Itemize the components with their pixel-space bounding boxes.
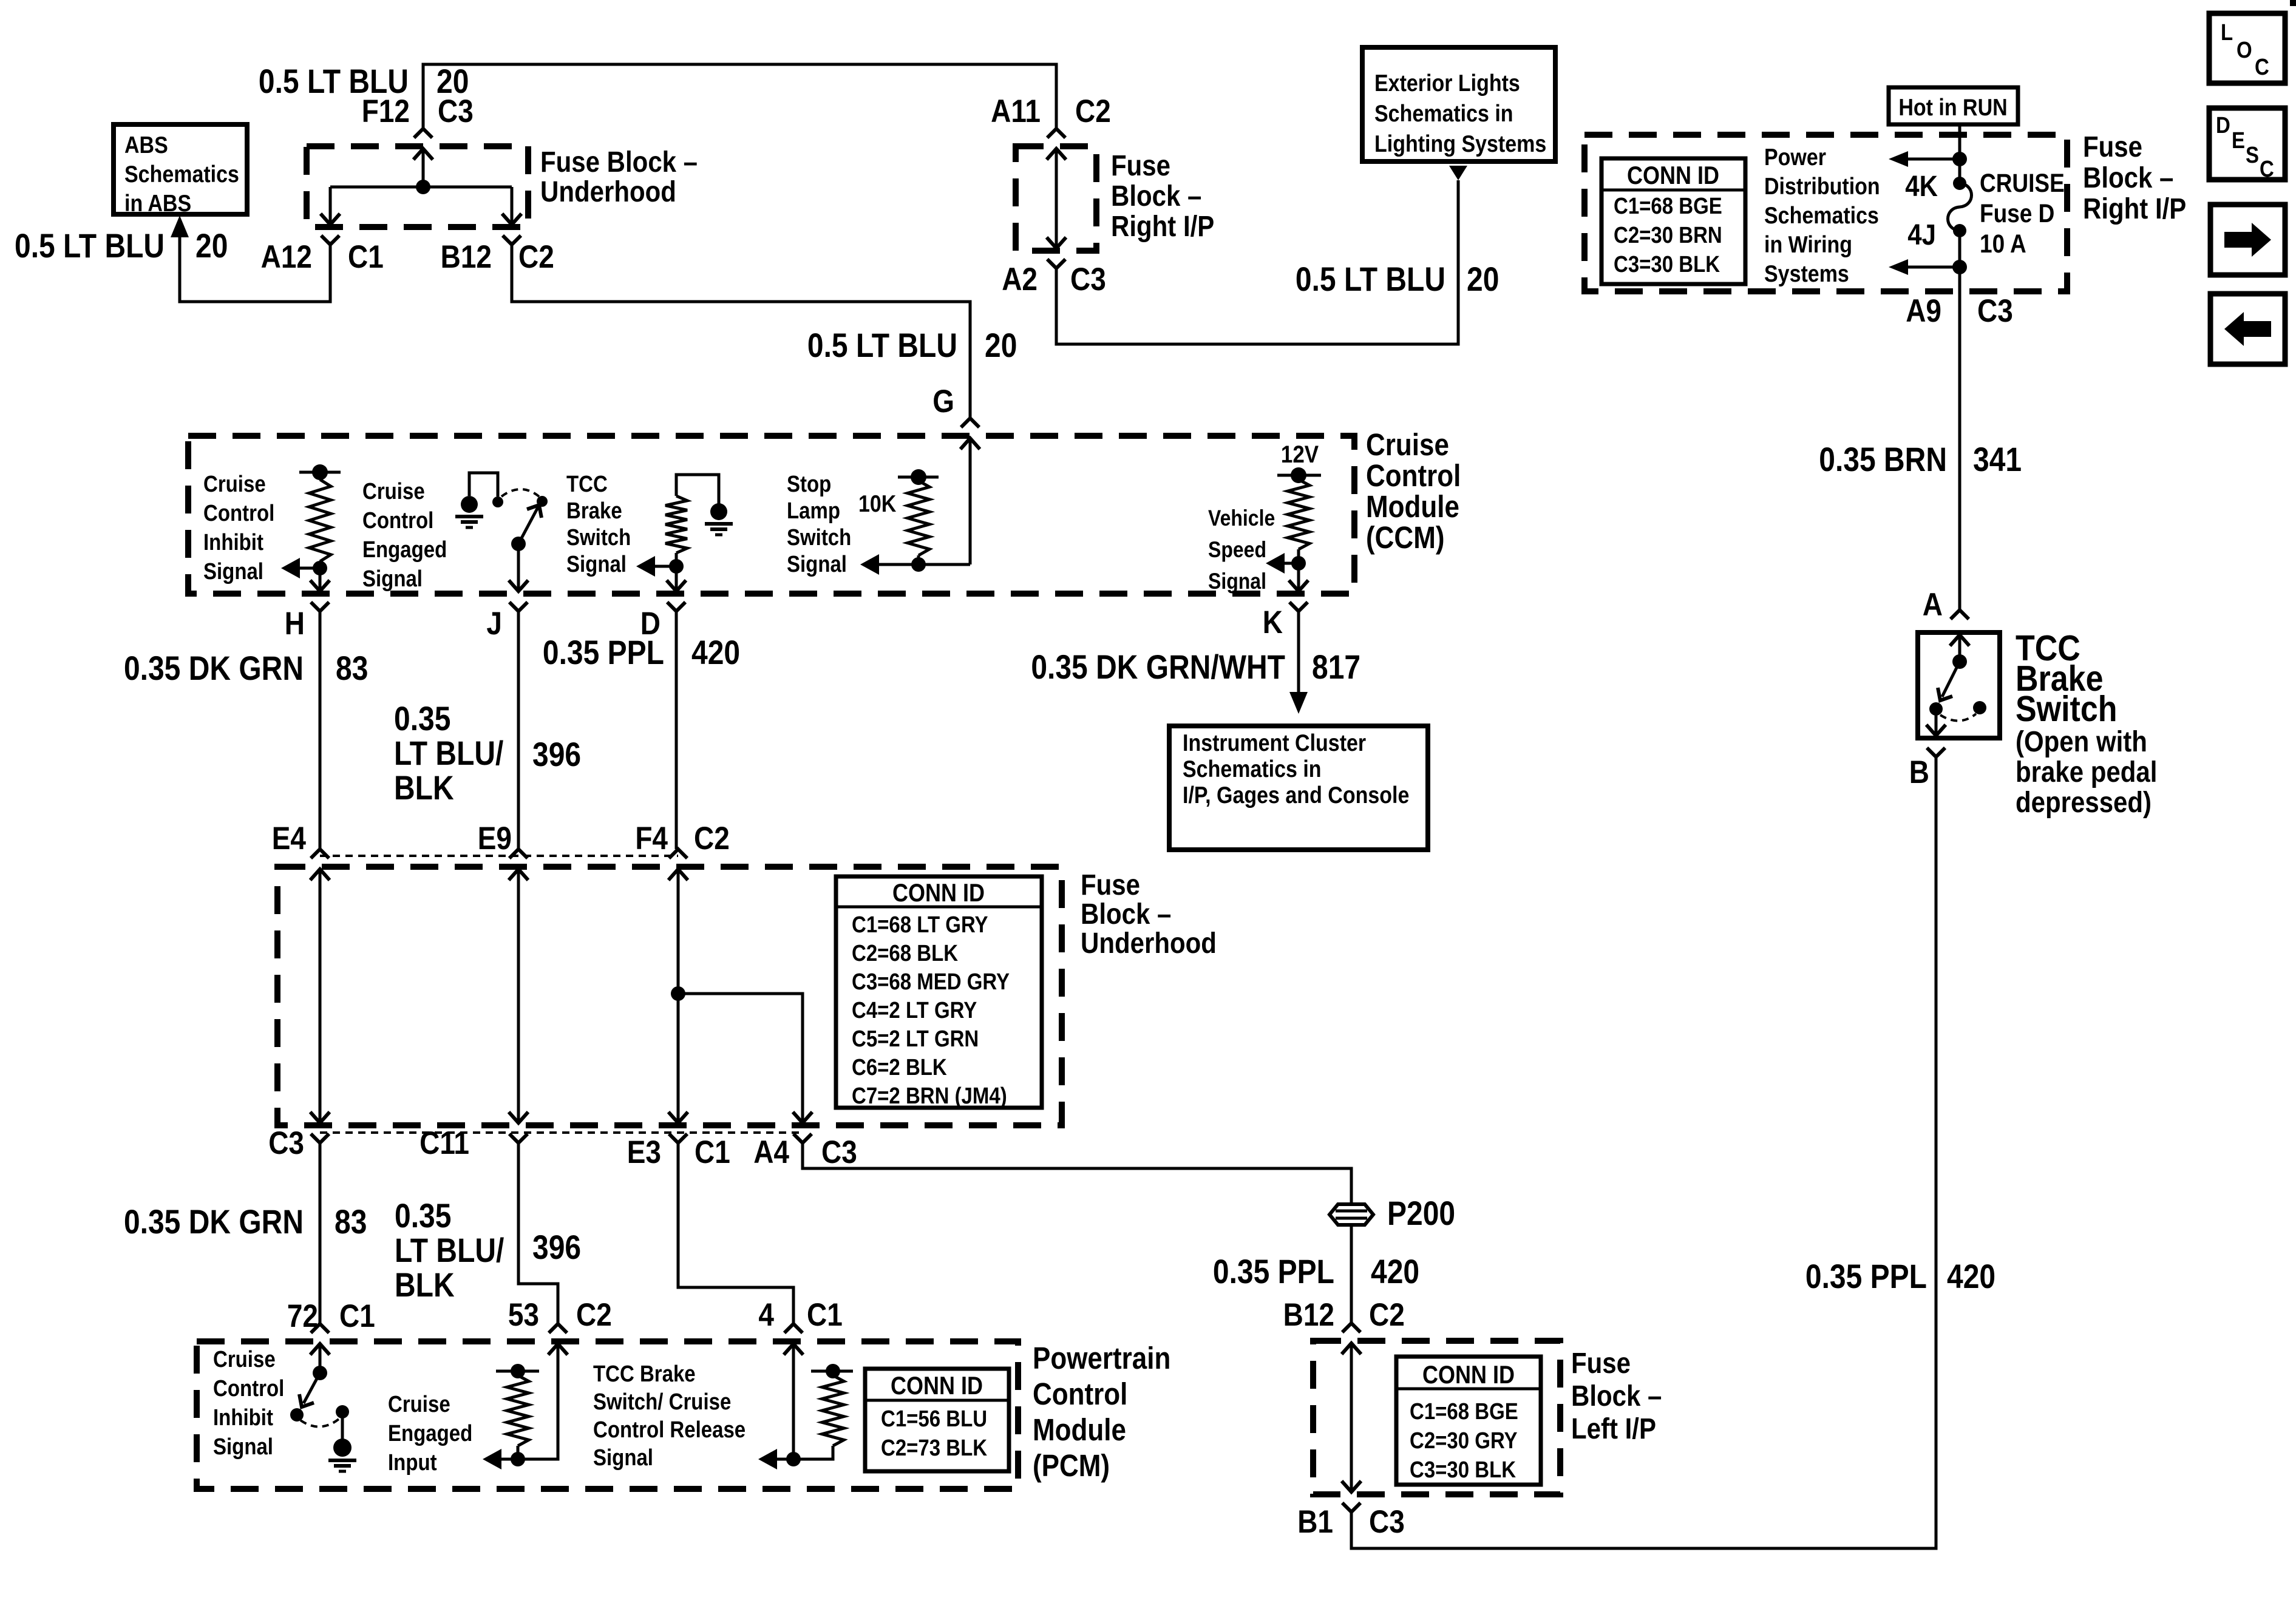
box: ABS Schematics in ABS reference xyxy=(114,124,247,217)
label: Fuse Block - Left I/P xyxy=(1571,1346,1662,1445)
label: 0.35 DK GRN wire color xyxy=(124,649,304,687)
nav box: DESC xyxy=(2209,108,2285,182)
wire: pin A shaft to switch pivot xyxy=(1958,635,1961,662)
svg-text:0.35 BRN: 0.35 BRN xyxy=(1819,441,1947,478)
svg-text:C3: C3 xyxy=(821,1134,857,1170)
svg-text:TCC Brake: TCC Brake xyxy=(593,1361,696,1387)
label: 0.35 LT BLU/BLK wire color xyxy=(394,700,503,807)
svg-text:C1=68 BGE: C1=68 BGE xyxy=(1614,193,1722,219)
arrow to exterior lights box xyxy=(1449,166,1467,180)
connector pin E3 xyxy=(627,1134,661,1170)
table: CONN ID (fuse block underhood) xyxy=(836,876,1042,1109)
svg-text:C1: C1 xyxy=(695,1134,730,1170)
svg-text:B1: B1 xyxy=(1297,1503,1333,1540)
svg-text:A2: A2 xyxy=(1002,261,1038,297)
connector cavity C3 (A4) xyxy=(821,1134,857,1170)
svg-text:CONN ID: CONN ID xyxy=(1422,1361,1515,1389)
svg-text:Speed: Speed xyxy=(1208,538,1266,563)
svg-text:20: 20 xyxy=(195,227,228,265)
svg-text:4K: 4K xyxy=(1905,169,1938,202)
svg-text:4J: 4J xyxy=(1907,218,1936,251)
svg-text:20: 20 xyxy=(1467,260,1499,298)
arrow: stop lamp switch signal (left) xyxy=(860,554,919,575)
connector pin F4 xyxy=(635,820,668,856)
wire: 0.35 LT BLU/BLK circuit 396 from C11 to PCM 53 xyxy=(518,1143,558,1324)
label: Cruise Control Engaged Signal (CCM) xyxy=(362,478,447,592)
svg-text:Fuse: Fuse xyxy=(1571,1346,1631,1379)
svg-text:CONN ID: CONN ID xyxy=(891,1372,983,1400)
label: circuit 20 xyxy=(195,227,228,265)
svg-text:0.35 PPL: 0.35 PPL xyxy=(543,634,664,671)
svg-text:0.35: 0.35 xyxy=(395,1197,451,1235)
svg-text:Powertrain: Powertrain xyxy=(1033,1341,1170,1376)
svg-text:0.35 PPL: 0.35 PPL xyxy=(1805,1258,1927,1295)
svg-text:C2: C2 xyxy=(518,239,554,275)
svg-text:CONN ID: CONN ID xyxy=(1627,162,1719,190)
wire: F4-E3 pass-through xyxy=(677,869,680,1123)
svg-text:C: C xyxy=(2255,54,2269,80)
svg-text:C1: C1 xyxy=(339,1298,375,1334)
svg-text:Fuse D: Fuse D xyxy=(1980,200,2054,228)
svg-text:(Open with: (Open with xyxy=(2016,725,2147,757)
svg-text:(CCM): (CCM) xyxy=(1366,521,1444,555)
connector symbol G at CCM top xyxy=(960,418,980,449)
connector symbol B1/C3 at left I/P bottom xyxy=(1342,1481,1361,1512)
svg-text:Underhood: Underhood xyxy=(540,175,676,208)
svg-text:Module: Module xyxy=(1033,1413,1126,1448)
wire: B12 branch inside fuse block xyxy=(511,187,514,225)
svg-text:CONN ID: CONN ID xyxy=(892,879,985,907)
svg-text:Engaged: Engaged xyxy=(362,537,447,563)
dashed box: Fuse Block - Underhood (center) xyxy=(277,867,1062,1125)
connector symbol 72/C1 at PCM top xyxy=(310,1324,330,1355)
svg-text:Switch: Switch xyxy=(787,524,851,551)
svg-text:396: 396 xyxy=(532,1229,581,1266)
dashed box: Fuse Block - Underhood (top) xyxy=(307,146,528,227)
connector symbol K at CCM bottom xyxy=(1289,580,1308,611)
connector pin F12 xyxy=(362,93,410,129)
label: Vehicle Speed Signal (CCM) xyxy=(1208,506,1275,594)
svg-text:Distribution: Distribution xyxy=(1764,173,1880,200)
svg-text:20: 20 xyxy=(985,327,1017,364)
svg-text:E: E xyxy=(2232,127,2245,154)
connector cavity C3 (top) xyxy=(438,93,474,129)
svg-text:H: H xyxy=(285,605,305,642)
label: Cruise Control Inhibit Signal (PCM) xyxy=(213,1346,284,1460)
connector pin A4 xyxy=(753,1134,789,1170)
label: 0.5 LT BLU (A2 branch) xyxy=(1296,260,1445,298)
label: CRUISE Fuse D 10 A xyxy=(1980,169,2065,259)
label: Fuse Block - Underhood (center) xyxy=(1081,868,1217,959)
svg-text:C: C xyxy=(2260,156,2274,182)
connector pin A9 xyxy=(1906,293,1941,329)
svg-text:Brake: Brake xyxy=(566,498,622,524)
svg-text:4: 4 xyxy=(758,1296,774,1333)
fuse: CRUISE Fuse D 10 A xyxy=(1948,177,1972,237)
label: 0.35 LT BLU/BLK wire color (lower) xyxy=(395,1197,504,1304)
wire: 0.5 LT BLU circuit 20 from A2 to exterior lights xyxy=(1056,180,1458,344)
connector pin A11 xyxy=(991,93,1041,129)
wire: 0.35 DK GRN circuit 83 from C3 to PCM 72 xyxy=(319,1143,322,1324)
label: circuit 20 (A2 branch) xyxy=(1467,260,1499,298)
svg-text:(PCM): (PCM) xyxy=(1033,1449,1110,1483)
label: Stop Lamp Switch Signal (CCM) xyxy=(787,471,851,577)
label: 0.35 DK GRN wire color (lower) xyxy=(124,1203,304,1241)
connector symbol C3 at fuse block bottom xyxy=(310,1112,330,1143)
label: TCC Brake Switch xyxy=(2016,628,2118,729)
box: Exterior Lights Schematics reference xyxy=(1362,47,1555,161)
svg-text:C3=30 BLK: C3=30 BLK xyxy=(1614,251,1720,277)
svg-text:in ABS: in ABS xyxy=(124,190,191,217)
label: Fuse Block - Underhood xyxy=(540,145,698,208)
connector cavity C2 (B12 left I/P) xyxy=(1369,1296,1405,1333)
svg-text:C11: C11 xyxy=(419,1125,469,1161)
svg-text:C3: C3 xyxy=(438,93,474,129)
switch: cruise control engaged (normally open) xyxy=(501,489,548,551)
connector symbol E3/C1 at fuse block bottom xyxy=(668,1112,688,1143)
svg-text:Inhibit: Inhibit xyxy=(203,529,263,555)
svg-text:Power: Power xyxy=(1764,144,1826,171)
resistor: vehicle speed signal pull-up to 12V xyxy=(1277,467,1321,563)
wire: E4-C3 pass-through xyxy=(319,869,322,1123)
label: fuse terminal 4K xyxy=(1905,169,1938,202)
box: Instrument Cluster Schematics reference xyxy=(1169,726,1428,850)
connector symbol 4/C1 at PCM top xyxy=(784,1324,803,1355)
svg-text:B12: B12 xyxy=(441,239,492,275)
svg-text:Inhibit: Inhibit xyxy=(213,1405,273,1431)
svg-text:BLK: BLK xyxy=(394,769,454,807)
junction: F4/A4 branch node xyxy=(671,986,685,1001)
table: CONN ID (left I/P) xyxy=(1396,1357,1541,1485)
svg-text:Cruise: Cruise xyxy=(388,1391,450,1417)
connector cavity C3 (E4 out) xyxy=(268,1125,304,1161)
arrow: TCC release signal (left) xyxy=(758,1449,793,1469)
svg-text:in Wiring: in Wiring xyxy=(1764,231,1852,258)
svg-text:ABS: ABS xyxy=(124,132,168,158)
svg-text:420: 420 xyxy=(1371,1253,1419,1290)
svg-text:P200: P200 xyxy=(1387,1195,1455,1232)
connector symbol 53/C2 at PCM top xyxy=(548,1324,568,1355)
svg-text:C3=68 MED GRY: C3=68 MED GRY xyxy=(852,969,1010,995)
wire: internal bus of fuse block underhood xyxy=(330,186,512,189)
wire: 0.5 LT BLU circuit 20 from B12 to CCM pin G xyxy=(512,242,970,418)
wire: 0.35 BRN circuit 341 from fuse to TCC brake switch pin A xyxy=(1958,267,1961,610)
label: Cruise Control Inhibit Signal (CCM) xyxy=(203,471,274,585)
dashed box: Fuse Block - Right I/P power distribution xyxy=(1584,135,2067,291)
svg-text:Control: Control xyxy=(1366,459,1461,493)
wire: 0.35 PPL circuit 420 from D to F4 xyxy=(675,611,678,849)
connector pin A2 xyxy=(1002,261,1038,297)
label: 0.5 LT BLU wire color xyxy=(15,227,165,265)
arrow: cruise engaged input (left) xyxy=(483,1449,518,1469)
label: circuit 396 xyxy=(532,736,581,773)
svg-text:A9: A9 xyxy=(1906,293,1941,329)
resistor: TCC release pull-up xyxy=(793,1364,853,1459)
connector cavity C2 (F4) xyxy=(694,820,730,856)
svg-text:E9: E9 xyxy=(478,820,512,856)
arrow: TCC brake switch signal (left) xyxy=(636,556,676,577)
svg-text:Switch: Switch xyxy=(2016,688,2118,729)
switch: cruise control inhibit (PCM input) xyxy=(290,1366,356,1471)
svg-text:C2=68 BLK: C2=68 BLK xyxy=(852,940,958,966)
wire: vehicle speed signal to pin K xyxy=(1297,563,1300,591)
connector cavity C1 (4) xyxy=(807,1296,843,1333)
svg-text:C2: C2 xyxy=(576,1296,612,1333)
wire: stop lamp node to pin G shaft xyxy=(919,563,970,566)
svg-text:C3: C3 xyxy=(1369,1503,1405,1540)
svg-text:LT BLU/: LT BLU/ xyxy=(394,734,503,772)
svg-text:Schematics: Schematics xyxy=(1764,202,1879,229)
arrow: inhibit signal (left) xyxy=(281,558,320,578)
connector symbol A12/C1 at fuse block underhood bottom xyxy=(321,214,340,245)
label: TCC Brake Switch Signal (CCM) xyxy=(566,471,631,577)
wire: 0.5 LT BLU circuit 20 from fuse block A12 to ABS box xyxy=(180,236,330,302)
connector symbol F12/C3 at fuse block underhood top xyxy=(413,129,433,160)
svg-text:B12: B12 xyxy=(1283,1296,1334,1333)
svg-text:F4: F4 xyxy=(635,820,668,856)
wire: TCC brake switch signal to pin D xyxy=(675,566,678,591)
svg-text:Cruise: Cruise xyxy=(213,1346,276,1372)
svg-text:0.35 DK GRN/WHT: 0.35 DK GRN/WHT xyxy=(1031,648,1285,686)
label: Cruise Control Module (CCM) xyxy=(1366,428,1461,555)
connector cavity C1 (72) xyxy=(339,1298,375,1334)
svg-text:Block –: Block – xyxy=(1111,179,1201,212)
svg-text:Schematics: Schematics xyxy=(124,161,239,188)
ground: cruise engaged signal switch ground xyxy=(455,473,503,527)
svg-text:Lighting Systems: Lighting Systems xyxy=(1374,130,1546,157)
dashed link: connector row C3-C11-E3-A4 xyxy=(320,1131,803,1134)
connector pin E4 xyxy=(272,820,307,856)
junction: cruise engaged input node xyxy=(511,1452,525,1466)
connector pin B1 xyxy=(1297,1503,1333,1540)
svg-text:Control: Control xyxy=(362,507,433,534)
label: 0.35 BRN wire color xyxy=(1819,441,1947,478)
wire: fuse output xyxy=(1958,231,1961,267)
svg-text:0.5 LT BLU: 0.5 LT BLU xyxy=(1296,260,1445,298)
junction: TCC brake switch signal node xyxy=(669,559,684,574)
nav box: next arrow xyxy=(2210,205,2285,275)
svg-text:Cruise: Cruise xyxy=(203,471,266,497)
connector cavity C11 xyxy=(419,1125,469,1161)
connector cavity C3 (B1) xyxy=(1369,1503,1405,1540)
table: CONN ID (right I/P) xyxy=(1601,158,1745,284)
svg-text:C2: C2 xyxy=(694,820,730,856)
svg-text:Signal: Signal xyxy=(213,1434,273,1460)
svg-text:Right I/P: Right I/P xyxy=(1111,209,1214,242)
label: Powertrain Control Module (PCM) xyxy=(1033,1341,1170,1483)
junction: stop lamp switch signal node xyxy=(911,557,926,572)
wire: pin 72 shaft xyxy=(319,1344,322,1373)
svg-text:A: A xyxy=(1923,586,1943,623)
svg-text:Right I/P: Right I/P xyxy=(2083,192,2186,225)
svg-text:J: J xyxy=(486,605,502,642)
svg-text:Hot in RUN: Hot in RUN xyxy=(1898,94,2007,121)
label: circuit 83 (lower) xyxy=(335,1203,367,1241)
svg-text:0.5 LT BLU: 0.5 LT BLU xyxy=(15,227,165,265)
connector symbol E9 at fuse block top xyxy=(509,849,528,880)
svg-text:Cruise: Cruise xyxy=(362,478,425,504)
connector symbol J at CCM bottom xyxy=(509,580,528,611)
connector pin 72 xyxy=(287,1298,318,1334)
junction: inhibit signal node xyxy=(313,561,327,575)
arrow into instrument cluster box xyxy=(1289,692,1308,714)
label: circuit 817 xyxy=(1312,648,1360,686)
svg-text:K: K xyxy=(1263,604,1283,640)
label: circuit 420 xyxy=(691,634,740,671)
connector symbol A4/C3 at fuse block bottom xyxy=(793,1112,812,1143)
connector pin E9 xyxy=(478,820,512,856)
dashed box: Fuse Block - Left I/P xyxy=(1313,1341,1560,1494)
connector cavity C1 (E3) xyxy=(695,1134,730,1170)
wire: 0.35 DK GRN circuit 83 from H to E4 xyxy=(319,611,322,849)
wire: 0.35 PPL circuit 420 from B1 to TCC brake switch pin B xyxy=(1351,758,1936,1548)
svg-text:C4=2 LT GRY: C4=2 LT GRY xyxy=(852,997,977,1023)
connector cavity C1 xyxy=(348,239,384,275)
wire: F12 shaft inside fuse block xyxy=(422,149,425,187)
svg-text:C3: C3 xyxy=(1977,293,2013,329)
arrow into ABS box (wire 20 LT BLU endpoint) xyxy=(171,215,189,237)
arrow: feed to power distribution (left) xyxy=(1889,151,1960,167)
svg-text:420: 420 xyxy=(1947,1258,1995,1295)
svg-text:Left I/P: Left I/P xyxy=(1571,1412,1656,1445)
arrow: fuse output to power distribution (left) xyxy=(1889,259,1960,275)
connector pin B12 xyxy=(441,239,492,275)
svg-text:Control: Control xyxy=(213,1375,284,1401)
svg-text:BLK: BLK xyxy=(395,1266,455,1304)
svg-text:Module: Module xyxy=(1366,490,1459,524)
svg-text:Signal: Signal xyxy=(203,558,263,585)
connector pin H xyxy=(285,605,305,642)
svg-text:83: 83 xyxy=(336,649,368,687)
svg-text:depressed): depressed) xyxy=(2016,785,2152,818)
wire: Hot in RUN feed into fuse block xyxy=(1958,124,1961,183)
connector symbol A2/C3 at fuse block right I/P bottom xyxy=(1047,237,1066,268)
wire: branch to A4 xyxy=(678,994,803,1123)
svg-text:E3: E3 xyxy=(627,1134,661,1170)
svg-text:396: 396 xyxy=(532,736,581,773)
svg-text:341: 341 xyxy=(1973,441,2022,478)
label: Cruise Engaged Input (PCM) xyxy=(388,1391,472,1476)
svg-text:Control: Control xyxy=(203,500,274,526)
svg-text:Block –: Block – xyxy=(2083,161,2173,194)
label: circuit 420 (P200) xyxy=(1371,1253,1419,1290)
connector cavity C3 (A2) xyxy=(1070,261,1106,297)
svg-text:Schematics in: Schematics in xyxy=(1374,100,1513,127)
label: circuit 341 xyxy=(1973,441,2022,478)
wire: engaged signal to pin J xyxy=(517,544,520,591)
svg-text:Exterior Lights: Exterior Lights xyxy=(1374,70,1520,97)
svg-text:I/P, Gages and Console: I/P, Gages and Console xyxy=(1183,782,1409,808)
svg-text:Fuse: Fuse xyxy=(2083,130,2142,163)
dashed box: Fuse Block - Right I/P (pass-through) xyxy=(1016,146,1096,251)
connector symbol C11 at fuse block bottom xyxy=(509,1112,528,1143)
svg-text:83: 83 xyxy=(335,1203,367,1241)
svg-text:Fuse Block –: Fuse Block – xyxy=(540,145,698,178)
wire: pin 4 shaft xyxy=(792,1344,795,1459)
svg-text:C1=68 LT GRY: C1=68 LT GRY xyxy=(852,912,988,938)
label: resistor value 10K xyxy=(858,490,897,517)
svg-text:C1=68 BGE: C1=68 BGE xyxy=(1410,1398,1518,1425)
wire: left I/P pass-through xyxy=(1350,1343,1353,1492)
svg-text:Lamp: Lamp xyxy=(787,498,840,524)
svg-text:C2=73 BLK: C2=73 BLK xyxy=(881,1435,987,1461)
svg-text:Schematics in: Schematics in xyxy=(1183,756,1322,782)
connector cavity C2 (53) xyxy=(576,1296,612,1333)
svg-text:CRUISE: CRUISE xyxy=(1980,169,2065,198)
svg-text:C2: C2 xyxy=(1369,1296,1405,1333)
label: 0.35 PPL wire color (P200) xyxy=(1213,1253,1334,1290)
label: 12V supply xyxy=(1281,441,1319,468)
svg-text:0.35 DK GRN: 0.35 DK GRN xyxy=(124,1203,304,1241)
svg-text:Switch: Switch xyxy=(566,524,631,551)
svg-text:817: 817 xyxy=(1312,648,1360,686)
connector pin K xyxy=(1263,604,1283,640)
svg-text:L: L xyxy=(2221,19,2233,46)
connector pin A (TCC brake switch) xyxy=(1923,586,1943,623)
wire: inhibit signal to pin H xyxy=(319,568,322,591)
resistor: 10K stop lamp switch pull-up xyxy=(898,469,939,564)
svg-text:C1=56 BLU: C1=56 BLU xyxy=(881,1406,987,1432)
svg-text:Block –: Block – xyxy=(1571,1379,1662,1412)
connector pin D xyxy=(640,605,661,642)
nav box: previous arrow xyxy=(2210,294,2285,364)
svg-text:Vehicle: Vehicle xyxy=(1208,506,1275,531)
resistor: cruise engaged input pull-up xyxy=(496,1364,539,1459)
connector pin B12 (left I/P) xyxy=(1283,1296,1334,1333)
connector symbol F4 at fuse block top xyxy=(668,849,688,880)
svg-text:Systems: Systems xyxy=(1764,260,1849,287)
svg-text:0.35 DK GRN: 0.35 DK GRN xyxy=(124,649,304,687)
svg-text:Fuse: Fuse xyxy=(1081,868,1140,901)
svg-text:O: O xyxy=(2237,37,2252,63)
svg-text:C1: C1 xyxy=(807,1296,843,1333)
label: 0.35 PPL wire color (right) xyxy=(1805,1258,1927,1295)
label: 0.35 PPL wire color xyxy=(543,634,664,671)
wire: 0.35 PPL circuit 420 from E3 to PCM 4 xyxy=(678,1143,793,1324)
svg-text:C2: C2 xyxy=(1075,93,1111,129)
svg-text:Stop: Stop xyxy=(787,471,831,497)
svg-text:420: 420 xyxy=(691,634,740,671)
connector symbol A at TCC brake switch top xyxy=(1950,610,1969,646)
svg-text:12V: 12V xyxy=(1281,441,1319,468)
wire: 0.35 PPL circuit 420 from A4 to P200 xyxy=(803,1143,1351,1204)
svg-text:Signal: Signal xyxy=(787,551,847,577)
label: circuit 83 xyxy=(336,649,368,687)
svg-text:C5=2 LT GRN: C5=2 LT GRN xyxy=(852,1026,979,1052)
label: circuit 420 (right) xyxy=(1947,1258,1995,1295)
connector cavity C2 (A11) xyxy=(1075,93,1111,129)
svg-text:Block –: Block – xyxy=(1081,897,1171,930)
wire: 0.35 DK GRN/WHT circuit 817 to instrument cluster xyxy=(1297,611,1300,692)
svg-text:B: B xyxy=(1909,754,1929,790)
connector pin 53 xyxy=(508,1296,539,1333)
wire: E9-C11 pass-through xyxy=(517,869,520,1123)
connector cavity C2 xyxy=(518,239,554,275)
svg-text:E4: E4 xyxy=(272,820,307,856)
label: Power Distribution Schematics in Wiring Systems xyxy=(1764,144,1880,287)
svg-text:A4: A4 xyxy=(753,1134,789,1170)
svg-text:C3: C3 xyxy=(1070,261,1106,297)
wire: 0.5 LT BLU circuit 20 top rail from F12 to A11 xyxy=(423,64,1056,129)
label: fuse terminal 4J xyxy=(1907,218,1936,251)
svg-text:10K: 10K xyxy=(858,490,897,517)
svg-text:A12: A12 xyxy=(261,239,312,275)
svg-text:C2=30 BRN: C2=30 BRN xyxy=(1614,222,1722,248)
label: TCC Brake Switch/ Cruise Control Release Signal (PCM) xyxy=(593,1361,746,1471)
svg-text:brake pedal: brake pedal xyxy=(2016,755,2157,788)
svg-text:Signal: Signal xyxy=(566,551,627,577)
svg-text:C2=30 GRY: C2=30 GRY xyxy=(1410,1428,1518,1454)
